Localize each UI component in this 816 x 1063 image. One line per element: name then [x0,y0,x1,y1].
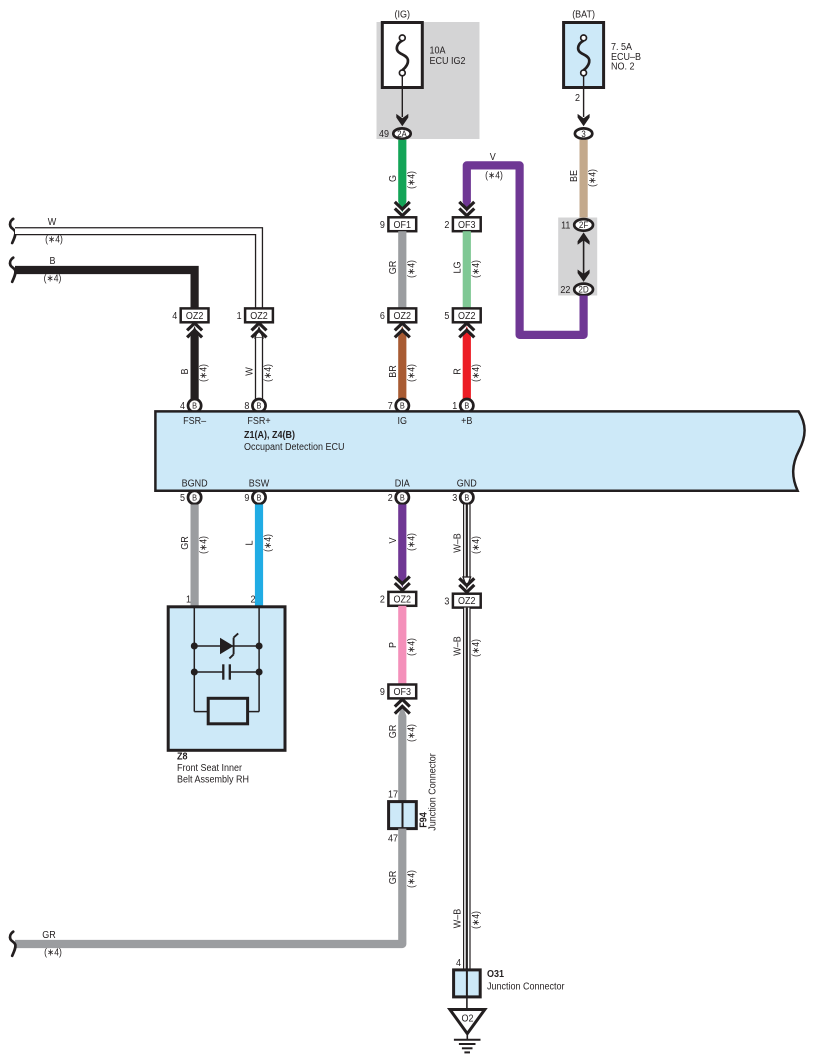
arrows into connector OF3 pin 2 [459,202,474,209]
svg-text:9: 9 [380,220,385,231]
break symbol wire W [10,219,15,243]
svg-text:ECU IG2: ECU IG2 [430,56,466,67]
svg-text:3: 3 [581,129,585,139]
svg-text:(∗4): (∗4) [485,170,503,181]
O31 Junction Connector box [454,970,481,997]
connector OZ2 pin 2 [388,592,416,606]
svg-text:B: B [400,402,405,411]
arrows into connector OF1 [395,202,410,209]
svg-text:Occupant Detection ECU: Occupant Detection ECU [244,442,345,453]
svg-text:Junction Connector: Junction Connector [428,753,439,831]
svg-text:Junction Connector: Junction Connector [487,982,565,993]
svg-text:OZ2: OZ2 [186,311,204,322]
Z8 internal wire from pin 2 [258,607,260,712]
svg-text:OF3: OF3 [458,220,476,231]
wire GR gray IG column [398,231,406,308]
svg-text:B: B [50,256,56,267]
svg-text:17: 17 [388,790,398,801]
pin 5 B BGND terminal [188,491,201,504]
svg-text:R: R [452,368,463,375]
svg-text:5: 5 [444,311,449,322]
svg-text:OZ2: OZ2 [394,594,412,605]
svg-text:47: 47 [388,834,398,845]
connector OF1 pin 9 [388,217,416,231]
break symbol wire B [10,258,15,282]
svg-text:3: 3 [452,493,457,504]
svg-text:W: W [245,367,256,376]
wire from BAT fuse to connector 3 [583,76,585,117]
wire G (*4) green [398,140,406,202]
zener diode [220,638,234,654]
pin 3 B GND terminal [460,491,473,504]
pin 4 B FSR- terminal [188,399,201,412]
wire GR from BGND to Z8 [191,505,199,608]
wire P pink [398,606,406,685]
connector OZ2 pin 5 [453,308,481,322]
svg-text:9: 9 [380,687,385,698]
svg-text:(∗4): (∗4) [406,724,417,742]
Z8 internal wire to resistor right [247,711,259,713]
wire R red [463,326,471,337]
svg-text:B: B [464,493,469,502]
svg-text:GR: GR [180,536,191,550]
connector oval 2D pin 22 [574,284,593,296]
svg-text:B: B [464,402,469,411]
svg-text:4: 4 [172,311,177,322]
svg-text:G: G [388,175,399,182]
svg-text:(∗4): (∗4) [471,536,482,554]
pin 8 B FSR+ terminal [252,399,265,412]
wire B vertical to FSR- [191,326,199,337]
svg-text:2: 2 [444,220,449,231]
svg-text:Z1(A), Z4(B): Z1(A), Z4(B) [244,430,295,441]
svg-text:GR: GR [42,930,56,941]
pin 2 B DIA terminal [396,491,409,504]
junction dot pin1-capacitor [191,669,198,676]
F94 Junction Connector box [389,802,417,829]
svg-text:2: 2 [388,493,393,504]
ground symbol [454,1039,481,1041]
svg-text:BSW: BSW [249,478,270,489]
svg-text:FSR+: FSR+ [247,416,270,427]
svg-text:(∗4): (∗4) [263,534,274,552]
ECU Z1(A) Z4(B) Occupant Detection ECU [155,411,804,490]
resistor [208,698,247,724]
svg-text:49: 49 [379,129,389,140]
svg-text:BR: BR [388,365,399,378]
svg-text:(∗4): (∗4) [263,364,274,382]
connector OF3 pin 9 [388,685,416,699]
svg-text:(∗4): (∗4) [45,235,63,246]
arrow into connector 2A [396,114,408,126]
svg-text:V: V [490,152,496,163]
svg-text:Z8: Z8 [177,752,188,763]
junction dot pin1-diode [191,643,198,650]
arrows into OZ2 pin 3 [459,578,474,585]
break symbol bottom GR wire [10,932,15,956]
svg-text:O2: O2 [462,1014,474,1025]
svg-text:(∗4): (∗4) [44,948,62,959]
connector OF3 pin 2 [453,217,481,231]
svg-text:FSR–: FSR– [183,416,206,427]
svg-text:GR: GR [388,871,399,885]
svg-text:(IG): (IG) [395,10,411,21]
arrows out of OF3 pin 9 [398,705,406,716]
svg-text:(∗4): (∗4) [406,870,417,888]
junction dot pin2-diode [256,643,263,650]
svg-text:2D: 2D [578,285,589,295]
svg-text:NO. 2: NO. 2 [611,62,635,73]
svg-text:+B: +B [461,416,473,427]
svg-text:B: B [257,493,262,502]
svg-text:OF3: OF3 [394,687,412,698]
wire V purple from DIA [398,505,406,577]
svg-text:W–B: W–B [452,908,463,928]
ground triangle O2 [450,1010,485,1034]
wire BR brown [398,337,406,400]
connector oval 2F pin 11 [574,219,593,231]
svg-text:5: 5 [180,493,185,504]
svg-text:(∗4): (∗4) [406,364,417,382]
wire L blue from BSW to Z8 [255,505,263,608]
svg-text:P: P [388,642,399,648]
arrows out of OZ2 pin 6 [398,326,406,337]
svg-text:2: 2 [380,594,385,605]
Z8 internal wire to resistor left [194,711,208,713]
svg-text:22: 22 [560,285,570,296]
svg-text:BE: BE [569,170,580,182]
svg-text:(∗4): (∗4) [406,260,417,278]
svg-text:B: B [257,402,262,411]
svg-text:Front Seat Inner: Front Seat Inner [177,763,243,774]
svg-text:W–B: W–B [452,636,463,656]
svg-text:(∗4): (∗4) [471,364,482,382]
wire BE beige [580,140,588,218]
svg-text:2F: 2F [579,220,589,230]
connector OZ2 pin 4 [181,308,209,322]
connector oval 2A pin 49 [393,128,410,138]
connector block 2F/2D background [558,218,597,296]
connector oval 3 [575,128,592,138]
svg-text:B: B [180,368,191,374]
svg-text:GR: GR [388,725,399,739]
svg-text:4: 4 [456,958,461,969]
svg-text:B: B [192,402,197,411]
Z8 internal wire capacitor row left [194,671,223,673]
arrows out of OZ2 pin 1 [252,323,267,330]
svg-text:GND: GND [457,478,477,489]
svg-text:9: 9 [244,493,249,504]
svg-text:(∗4): (∗4) [406,638,417,656]
svg-text:3: 3 [444,596,449,607]
junction dot pin2-capacitor [256,669,263,676]
svg-text:2A: 2A [397,129,407,139]
wire W white [15,231,259,309]
pin 1 B +B terminal [460,399,473,412]
svg-text:2: 2 [251,595,256,606]
svg-text:OZ2: OZ2 [250,311,268,322]
svg-text:(∗4): (∗4) [471,911,482,929]
wire W-B from GND [463,505,471,578]
svg-text:(∗4): (∗4) [199,364,210,382]
svg-text:B: B [192,493,197,502]
svg-text:W–B: W–B [452,533,463,553]
svg-text:Belt Assembly RH: Belt Assembly RH [177,775,249,786]
Z8 Front Seat Inner Belt Assembly RH box [168,607,285,751]
wire GR from F94 to bottom left [15,829,402,944]
svg-text:OZ2: OZ2 [458,596,476,607]
Z8 internal wire diode row [194,645,259,647]
wire from fuse to connector 2A [401,76,403,117]
capacitor [222,664,224,679]
svg-text:1: 1 [237,311,242,322]
svg-text:L: L [245,540,256,545]
svg-text:(∗4): (∗4) [471,639,482,657]
svg-text:DIA: DIA [395,478,410,489]
svg-text:(∗4): (∗4) [199,536,210,554]
svg-text:2: 2 [575,93,580,104]
arrow into connector 3 [578,114,590,126]
double arrow between 2F and 2D [583,238,585,277]
svg-text:B: B [400,493,405,502]
arrows out of OZ2 pin 4 [187,323,202,330]
arrows out of OZ2 pin 5 [459,323,474,330]
Z8 internal wire from pin 1 [193,607,195,712]
connector OZ2 pin 3 [453,594,481,608]
svg-text:(∗4): (∗4) [406,533,417,551]
svg-text:(∗4): (∗4) [471,260,482,278]
svg-text:10A: 10A [430,45,446,56]
svg-text:V: V [388,537,399,543]
wire from triangle to ground [466,1034,468,1040]
wire B black [15,270,195,309]
pin 9 B BSW terminal [252,491,265,504]
svg-text:OF1: OF1 [394,220,412,231]
svg-text:OZ2: OZ2 [458,311,476,322]
svg-text:BGND: BGND [182,478,208,489]
wire LG light green [463,231,471,308]
svg-text:11: 11 [561,221,571,232]
svg-text:(∗4): (∗4) [406,171,417,189]
wire from O31 to ground triangle [466,997,468,1010]
svg-text:OZ2: OZ2 [394,311,412,322]
connector OZ2 pin 1 [245,308,273,322]
svg-text:IG: IG [398,416,408,427]
connector OZ2 pin 6 [388,308,416,322]
svg-text:W: W [48,217,57,228]
Z8 internal wire capacitor row right [230,671,259,673]
svg-text:(∗4): (∗4) [588,169,599,187]
wire W-B from OZ2 to O31 [463,608,471,970]
wire GR gray to F94 [398,716,406,802]
svg-text:6: 6 [380,311,385,322]
wire W vertical to FSR+ [255,328,263,339]
svg-text:(∗4): (∗4) [44,274,62,285]
svg-text:1: 1 [186,595,191,606]
fuse block (IG) background [377,22,480,139]
svg-text:(BAT): (BAT) [572,10,595,21]
arrows into OZ2 pin 2 [395,577,410,584]
svg-text:LG: LG [452,261,463,273]
svg-text:GR: GR [388,261,399,275]
wire V purple from 2D to OF3 [467,165,584,335]
svg-text:O31: O31 [487,969,504,980]
pin 7 B IG terminal [396,399,409,412]
